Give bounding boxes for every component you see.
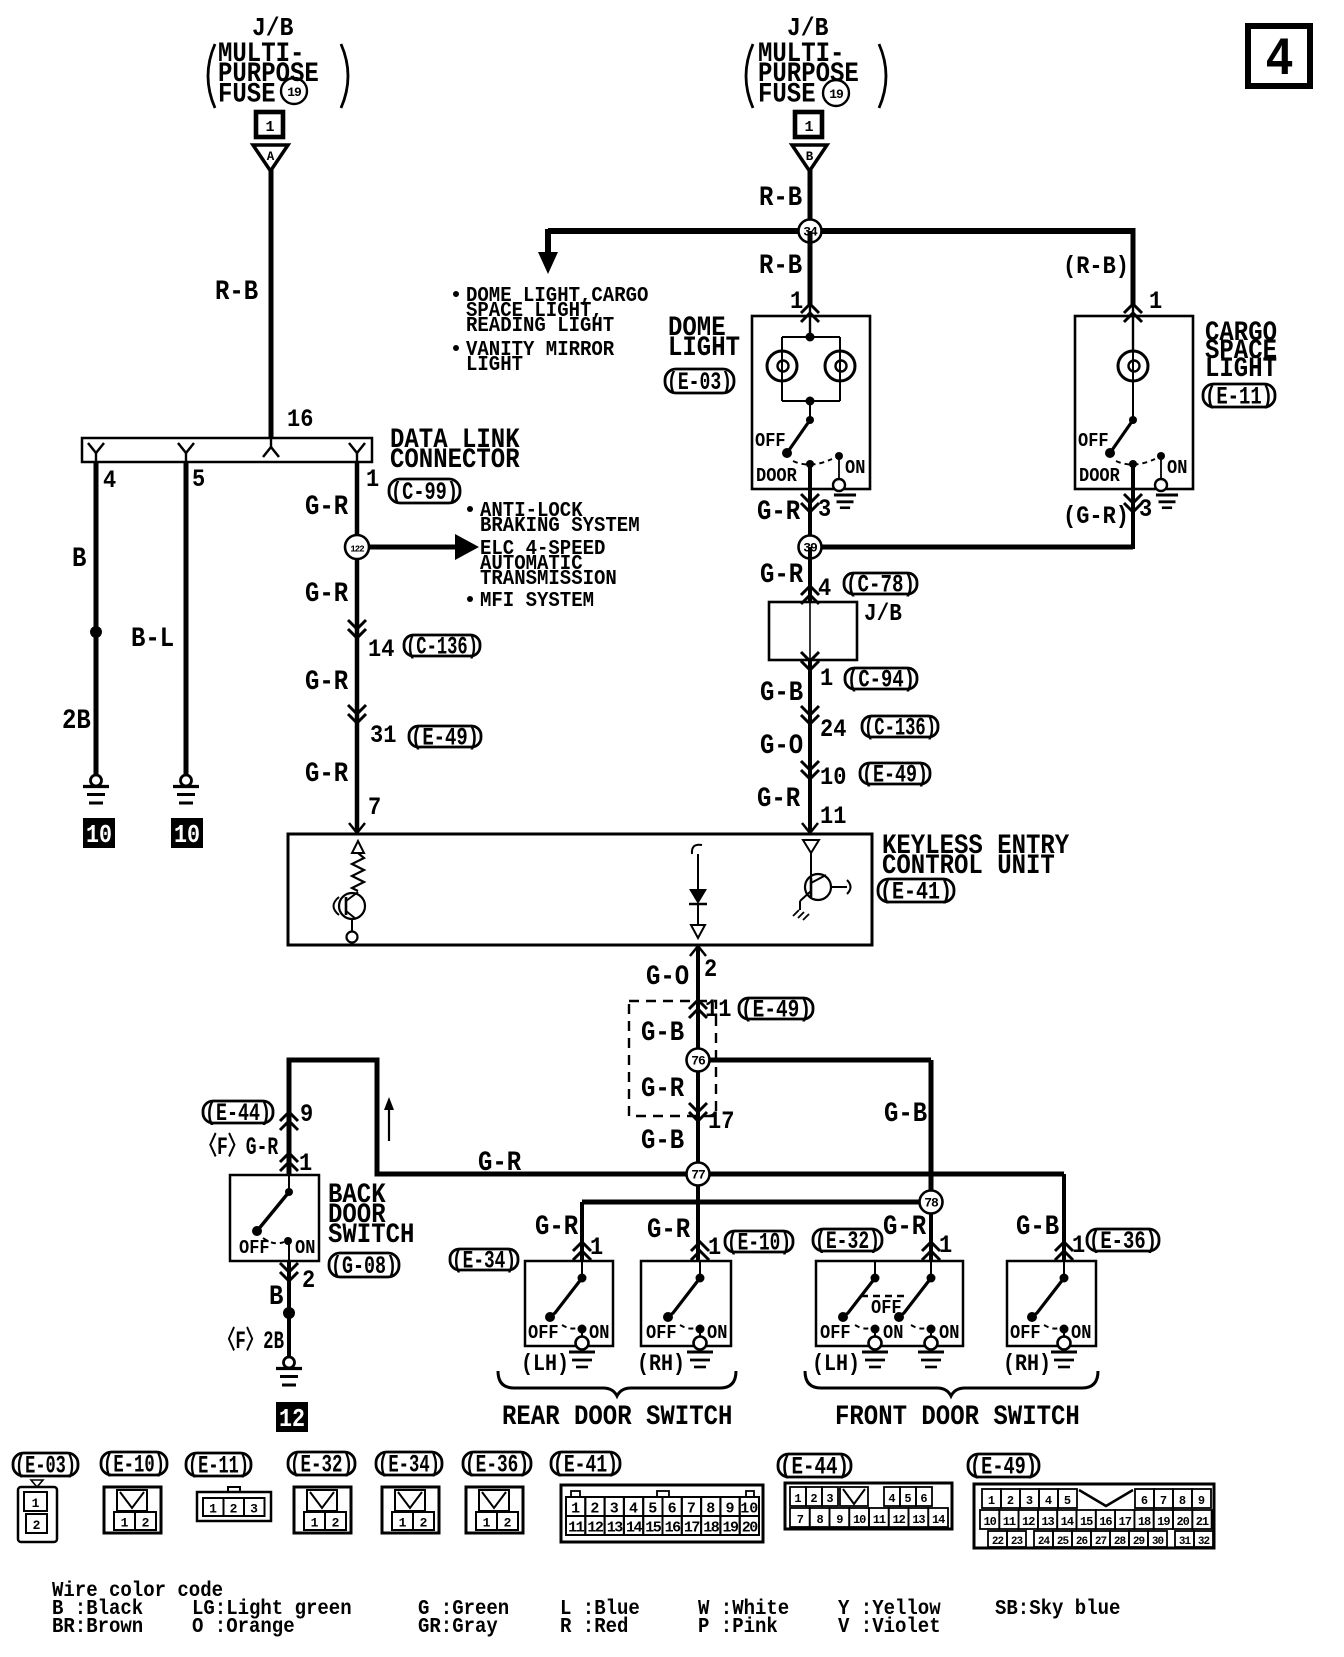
svg-text:2: 2 (33, 1518, 41, 1533)
bus wire to rear LH switch and splice 78 (582, 1202, 931, 1261)
cargo switch DOOR label (1079, 465, 1120, 487)
J/B exit chevron pin 1 (801, 652, 819, 670)
svg-text:7: 7 (797, 1513, 804, 1527)
svg-text:23: 23 (1011, 1536, 1024, 1548)
wire label G-O (760, 731, 803, 762)
splice node 122 (345, 535, 369, 559)
inline connector chevron 24 (801, 706, 819, 724)
wire B back door to ground (287, 1261, 291, 1358)
wire label B (72, 544, 86, 575)
svg-text:(E-11): (E-11) (1205, 383, 1273, 412)
wire label G-R below 39 (760, 560, 804, 591)
wire (R-B) bus to cargo space light (1131, 228, 1136, 318)
rear door switch RH chevron and labels (647, 1215, 721, 1262)
pin 11 label (E-49) (705, 995, 731, 1024)
svg-text:30: 30 (1152, 1536, 1164, 1548)
rear door switch LH chevron and labels (535, 1212, 603, 1262)
connector label C-136 (left) (404, 633, 480, 662)
back door switch G-08 box (230, 1175, 319, 1261)
svg-text:G-B: G-B (641, 1018, 684, 1049)
rear LH OFF/ON labels (528, 1322, 609, 1344)
svg-text:DOOR: DOOR (756, 465, 797, 487)
svg-text:3: 3 (250, 1502, 258, 1517)
svg-text:ON: ON (589, 1322, 609, 1344)
svg-text:2: 2 (230, 1502, 238, 1517)
fuse terminal box 1 (left) (256, 112, 283, 137)
svg-text:18: 18 (703, 1520, 720, 1537)
junction dot on wire B (90, 626, 102, 638)
cargo switch OFF label (1078, 430, 1109, 452)
cargo pin 1 chevron (1124, 304, 1142, 322)
junction block J/B multi-purpose fuse 19 label (left) (208, 13, 348, 111)
svg-text:ON: ON (707, 1322, 727, 1344)
wire B pin 4 to ground (94, 462, 99, 776)
svg-text:MFI SYSTEM: MFI SYSTEM (480, 588, 594, 613)
front RH OFF/ON labels (1010, 1322, 1091, 1344)
rear RH OFF/ON labels (646, 1322, 727, 1344)
wire G-O KECU pin 2 down to splice 77 and rear RH switch (696, 945, 700, 1261)
svg-text:1: 1 (483, 1516, 491, 1531)
back door switch internals (252, 1175, 293, 1261)
svg-text:OFF: OFF (1010, 1322, 1041, 1344)
wire label G-R below dome (757, 497, 801, 528)
svg-text:(E-49): (E-49) (741, 996, 811, 1025)
svg-text:21: 21 (1196, 1515, 1209, 1529)
dashed harness boundary box (629, 1001, 716, 1116)
connector label E-49 (center) (739, 996, 813, 1025)
connector label E-03 (665, 368, 734, 397)
svg-text:76: 76 (691, 1054, 706, 1069)
connector label E-34 (diagram) (450, 1247, 518, 1276)
svg-text:ON: ON (1071, 1322, 1091, 1344)
connector label C-78 (844, 571, 917, 600)
svg-text:7: 7 (687, 1501, 696, 1518)
svg-text:(C-94): (C-94) (847, 666, 915, 695)
splice node 77 (687, 1163, 710, 1186)
svg-text:27: 27 (1095, 1536, 1107, 1548)
svg-text:77: 77 (691, 1168, 705, 1183)
inline connector chevron 14 (348, 620, 366, 638)
wire label G-R segment 2 (305, 579, 349, 610)
svg-text:G-R: G-R (478, 1148, 522, 1179)
KECU pin 11 mark (802, 823, 818, 833)
svg-text:14: 14 (1061, 1515, 1074, 1529)
svg-text:10: 10 (86, 820, 112, 850)
cargo light internals: bulb and switch (1105, 316, 1167, 491)
bus wire splice 77 to front RH switch (698, 1174, 1064, 1261)
svg-text:3: 3 (610, 1501, 619, 1518)
svg-text:4: 4 (103, 466, 116, 495)
svg-text:12: 12 (279, 1404, 305, 1434)
splice node 78 (920, 1191, 943, 1214)
svg-text:P :Pink: P :Pink (698, 1614, 778, 1639)
wire label G-R segment 3 (305, 667, 349, 698)
connector label C-99 (389, 478, 460, 507)
svg-text:FRONT DOOR SWITCH: FRONT DOOR SWITCH (835, 1402, 1080, 1433)
svg-text:SB:Sky blue: SB:Sky blue (995, 1596, 1120, 1621)
branch arrow to other systems (369, 534, 479, 560)
svg-text:6: 6 (920, 1492, 927, 1506)
svg-text:B: B (72, 544, 86, 575)
dome switch ON ground (834, 495, 856, 508)
svg-text:32: 32 (1198, 1536, 1210, 1548)
svg-text:24: 24 (1038, 1536, 1051, 1548)
front LH (LH) label and grounds (812, 1351, 944, 1377)
svg-text:BRAKING SYSTEM: BRAKING SYSTEM (480, 513, 640, 538)
front door switch RH chevron and labels (1016, 1212, 1085, 1260)
svg-text:5: 5 (1064, 1494, 1071, 1508)
fuse terminal box 1 (right) (795, 112, 822, 137)
svg-text:31: 31 (1179, 1536, 1192, 1548)
svg-text:OFF: OFF (239, 1237, 270, 1259)
bus wire from splice 34 left and right (548, 228, 1133, 234)
svg-text:78: 78 (924, 1196, 939, 1211)
svg-text:17: 17 (708, 1107, 734, 1136)
svg-text:G-R: G-R (305, 492, 349, 523)
svg-text:(E-49): (E-49) (862, 761, 928, 790)
pin 7 label (368, 793, 381, 822)
svg-text:G-R: G-R (535, 1212, 579, 1243)
connector label E-44 (gallery) (778, 1453, 851, 1482)
svg-text:13: 13 (1041, 1515, 1054, 1529)
wire label G-R segment 4 (305, 759, 349, 790)
svg-text:25: 25 (1057, 1536, 1070, 1548)
svg-text:1: 1 (1072, 1231, 1085, 1260)
branch wire splice 76 to splice 78 (698, 1060, 931, 1202)
svg-text:(R-B): (R-B) (1063, 252, 1129, 281)
ground (back door) (276, 1357, 302, 1385)
wire label G-R in dashed box (641, 1074, 685, 1105)
front door switch LH box E-32 (double switch) (816, 1261, 963, 1350)
front door switch brace (805, 1371, 1098, 1396)
svg-text:2: 2 (504, 1516, 512, 1531)
svg-text:15: 15 (645, 1520, 662, 1537)
svg-text:12: 12 (1022, 1515, 1035, 1529)
data link connector label (390, 425, 520, 476)
wire R-B from fuse A to data link connector pin 16 (269, 170, 274, 438)
svg-text:4: 4 (888, 1492, 895, 1506)
ground (wire B-L) (173, 775, 199, 803)
wire B-L pin 5 to ground (184, 462, 189, 776)
svg-text:(E-10): (E-10) (103, 1451, 165, 1480)
svg-text:1: 1 (708, 1233, 721, 1262)
connector label C-94 (845, 666, 917, 695)
keyless entry control unit label (882, 831, 1070, 882)
front RH (RH) label and ground (1003, 1351, 1077, 1377)
svg-text:1: 1 (939, 1231, 952, 1260)
svg-text:19: 19 (1157, 1515, 1170, 1529)
wire R-B splice 34 to dome light (808, 231, 813, 318)
svg-text:2: 2 (704, 955, 717, 984)
system list: anti-lock braking, ELC 4-speed, MFI (467, 498, 640, 613)
svg-text:ON: ON (939, 1322, 959, 1344)
inline connector chevron 17 (689, 1103, 707, 1121)
ground reference 12 (276, 1402, 308, 1434)
svg-text:(G-R): (G-R) (1063, 502, 1129, 531)
svg-text:6: 6 (1141, 1494, 1148, 1508)
pin 11 label (820, 802, 846, 831)
connector drawing E-34 (382, 1487, 439, 1533)
svg-text:〈F〉2B: 〈F〉2B (218, 1326, 284, 1356)
connector label E-32 (gallery) (288, 1451, 355, 1480)
svg-text:R-B: R-B (215, 277, 258, 308)
svg-text:(E-49): (E-49) (411, 724, 479, 753)
wire label <F>2B (218, 1326, 284, 1356)
svg-text:14: 14 (368, 635, 394, 664)
back door switch label (328, 1180, 414, 1251)
svg-text:G-R: G-R (305, 759, 349, 790)
svg-text:1: 1 (399, 1516, 407, 1531)
connector label E-41 (878, 878, 954, 907)
connector drawing E-44 (785, 1483, 952, 1529)
svg-text:G-R: G-R (757, 784, 801, 815)
wire direction arrow (384, 1097, 394, 1141)
svg-text:19: 19 (722, 1520, 739, 1537)
svg-text:8: 8 (706, 1501, 715, 1518)
wire R-B from fuse B to splice 34 (808, 170, 813, 231)
rear door switch label (502, 1402, 732, 1433)
svg-text:G-R: G-R (883, 1212, 927, 1243)
light list text (453, 283, 648, 377)
svg-text:3: 3 (818, 495, 831, 524)
svg-text:R-B: R-B (759, 183, 802, 214)
wire label G-B (760, 678, 803, 709)
svg-text:OFF: OFF (646, 1322, 677, 1344)
connector label E-36 (gallery) (463, 1451, 531, 1480)
svg-text:(E-41): (E-41) (880, 878, 952, 907)
svg-text:2: 2 (142, 1516, 150, 1531)
svg-text:A: A (267, 150, 275, 164)
svg-text:16: 16 (1099, 1515, 1112, 1529)
wire label B-L (131, 624, 174, 655)
svg-text:1: 1 (311, 1516, 319, 1531)
dome switch DOOR label (756, 465, 797, 487)
svg-text:3: 3 (1026, 1494, 1033, 1508)
svg-text:1: 1 (1149, 287, 1162, 316)
svg-text:CONNECTOR: CONNECTOR (390, 445, 520, 476)
svg-text:5: 5 (648, 1501, 657, 1518)
wire label G-O below KECU (646, 962, 689, 993)
KECU internal output transistor (793, 840, 851, 920)
connector drawing E-11 (197, 1487, 271, 1521)
svg-text:1: 1 (988, 1494, 995, 1508)
wire label G-B below 17 (641, 1126, 684, 1157)
connector triangle B (792, 145, 827, 171)
svg-text:2: 2 (1007, 1494, 1014, 1508)
connector drawing E-36 (466, 1487, 523, 1533)
svg-text:3: 3 (1139, 495, 1152, 524)
wire label G-B in dashed box (641, 1018, 684, 1049)
svg-text:〈F〉G-R: 〈F〉G-R (199, 1132, 279, 1162)
svg-text:24: 24 (820, 715, 846, 744)
pin 24 label (820, 715, 846, 744)
svg-text:SWITCH: SWITCH (328, 1220, 414, 1251)
svg-text:1: 1 (820, 664, 833, 693)
svg-text:2: 2 (420, 1516, 428, 1531)
svg-text:1: 1 (121, 1516, 129, 1531)
svg-text:O :Orange: O :Orange (192, 1614, 295, 1639)
front door switch RH box E-36 (1007, 1261, 1096, 1350)
svg-text:LIGHT: LIGHT (466, 352, 523, 377)
pin 14 label (368, 635, 394, 664)
connector label E-49 (left) (409, 724, 481, 753)
front door switch LH chevron and labels (883, 1212, 952, 1260)
back door exit chevron pin 2 (280, 1263, 298, 1281)
back door chevron pin 1 (280, 1153, 298, 1171)
svg-text:1: 1 (209, 1502, 217, 1517)
dome pin 3 label (818, 495, 831, 524)
svg-text:14: 14 (932, 1513, 945, 1527)
svg-text:1: 1 (804, 119, 813, 136)
rear door switch RH box E-10 (641, 1261, 731, 1350)
svg-text:G-O: G-O (646, 962, 689, 993)
cargo switch ON ground (1156, 495, 1178, 508)
connector drawing E-41 (561, 1485, 763, 1542)
svg-text:B: B (269, 1282, 283, 1313)
junction dot on wire B back door (283, 1307, 295, 1319)
connector label E-41 (gallery) (551, 1451, 620, 1480)
svg-text:31: 31 (370, 721, 396, 750)
svg-text:(E-34): (E-34) (452, 1247, 516, 1276)
wire label G-R on bus (478, 1148, 522, 1179)
svg-text:(C-99): (C-99) (391, 478, 458, 507)
connector drawing E-10 (104, 1487, 161, 1533)
connector label C-136 (right) (862, 714, 938, 743)
svg-text:(E-36): (E-36) (465, 1451, 529, 1480)
svg-text:4: 4 (818, 574, 831, 603)
svg-text:6: 6 (668, 1501, 677, 1518)
svg-text:(C-136): (C-136) (864, 714, 936, 743)
svg-text:B: B (806, 150, 814, 164)
back door chevron pin 9 (280, 1112, 298, 1130)
connector label E-36 (diagram) (1087, 1227, 1159, 1256)
ground (wire B) (83, 775, 109, 803)
pin 2 label (704, 955, 717, 984)
svg-text:(E-49): (E-49) (970, 1453, 1037, 1482)
keyless entry control unit E-41 box (288, 834, 872, 945)
svg-text:(C-78): (C-78) (846, 571, 915, 600)
KECU internal resistor and transistor (334, 841, 366, 945)
DLC pin number 5 (192, 465, 205, 494)
svg-text:BR:Brown: BR:Brown (52, 1614, 143, 1639)
svg-text:(C-136): (C-136) (406, 633, 478, 662)
connector label G-08 (329, 1252, 399, 1281)
connector label E-49 (gallery) (968, 1453, 1039, 1482)
svg-text:READING LIGHT: READING LIGHT (466, 313, 614, 338)
svg-text:(E-11): (E-11) (188, 1452, 249, 1481)
svg-text:12: 12 (892, 1513, 905, 1527)
wire label R-B upper (right) (759, 183, 802, 214)
svg-text:9: 9 (1198, 1494, 1205, 1508)
page number 4 box (1248, 26, 1310, 91)
svg-text:17: 17 (1119, 1515, 1132, 1529)
wire G-R back door switch to splice 77 (289, 1060, 698, 1175)
svg-text:122: 122 (350, 545, 364, 555)
pin 4 label (C-78) (818, 574, 831, 603)
svg-text:11: 11 (820, 802, 846, 831)
svg-text:4: 4 (1045, 1494, 1052, 1508)
wire (G-R) cargo light down to bus (1131, 464, 1135, 549)
KECU internal diode (689, 845, 707, 938)
connector label E-10 (diagram) (725, 1229, 793, 1258)
cargo exit chevron (1124, 494, 1142, 512)
dome light pin 1 label (790, 287, 803, 316)
wire label G-R above pin 11 (757, 784, 801, 815)
svg-text:20: 20 (742, 1520, 759, 1537)
dome light pin 1 chevron (801, 304, 819, 322)
svg-text:11: 11 (1003, 1515, 1016, 1529)
connector triangle A (253, 145, 288, 171)
wire label G-R segment 1 (305, 492, 349, 523)
svg-text:(E-34): (E-34) (378, 1451, 440, 1480)
svg-text:G-B: G-B (1016, 1212, 1059, 1243)
svg-text:G-O: G-O (760, 731, 803, 762)
svg-text:20: 20 (1176, 1515, 1189, 1529)
svg-text:26: 26 (1076, 1536, 1088, 1548)
svg-text:9: 9 (836, 1513, 843, 1527)
svg-text:15: 15 (1080, 1515, 1093, 1529)
svg-text:1: 1 (571, 1501, 580, 1518)
inline connector chevron 10 (801, 761, 819, 779)
svg-text:ON: ON (1167, 457, 1187, 479)
pin 9 label (300, 1100, 313, 1129)
wire label 2B (62, 706, 91, 737)
svg-text:(E-32): (E-32) (815, 1227, 880, 1256)
cargo pin 1 label (1149, 287, 1162, 316)
wire label (G-R) (1063, 502, 1129, 531)
svg-text:10: 10 (174, 820, 200, 850)
rear door switch LH box E-34 (525, 1261, 613, 1350)
svg-text:FUSE: FUSE (758, 80, 816, 111)
dome switch OFF label (755, 430, 786, 452)
cargo pin 3 label (1139, 495, 1152, 524)
wire color code legend (52, 1578, 1120, 1639)
svg-text:OFF: OFF (755, 430, 786, 452)
connector label E-34 (gallery) (376, 1451, 442, 1480)
svg-text:29: 29 (1133, 1536, 1145, 1548)
svg-text:G-R: G-R (305, 579, 349, 610)
junction block J/B pass-through box (769, 602, 857, 660)
splice node 39 (799, 536, 822, 559)
pin 16 label (287, 405, 313, 434)
svg-text:G-R: G-R (760, 560, 804, 591)
svg-text:19: 19 (829, 87, 844, 102)
svg-text:1: 1 (32, 1496, 40, 1511)
svg-text:V :Violet: V :Violet (838, 1614, 941, 1639)
dome light E-03 box (752, 316, 870, 489)
svg-text:18: 18 (1138, 1515, 1151, 1529)
KECU pin 7 mark (349, 823, 365, 833)
front LH OFF/ON labels (820, 1297, 959, 1344)
svg-text:12: 12 (587, 1520, 604, 1537)
svg-text:G-R: G-R (647, 1215, 691, 1246)
pin 10 label (820, 763, 846, 792)
connector label E-11 (gallery) (186, 1452, 251, 1481)
DLC pin number 4 (103, 466, 116, 495)
svg-text:(E-10): (E-10) (727, 1229, 791, 1258)
svg-text:G-R: G-R (641, 1074, 685, 1105)
back door OFF label (239, 1237, 270, 1259)
svg-text:5: 5 (904, 1492, 911, 1506)
data link connector C-99 box (82, 438, 372, 462)
ground reference 10 (left) (83, 818, 115, 850)
J/B label (864, 601, 902, 628)
svg-text:G-B: G-B (884, 1099, 927, 1130)
svg-text:1: 1 (366, 465, 379, 494)
pin 2 label (back door) (302, 1266, 315, 1295)
svg-text:2: 2 (332, 1516, 340, 1531)
svg-text:R :Red: R :Red (560, 1614, 628, 1639)
